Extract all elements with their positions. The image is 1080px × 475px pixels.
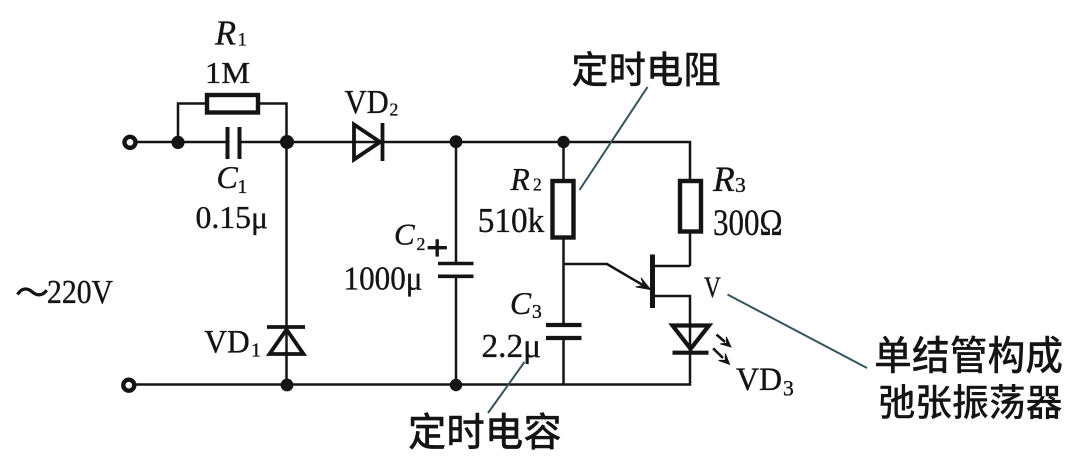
svg-text:R: R xyxy=(510,162,530,197)
svg-text:510k: 510k xyxy=(478,201,545,240)
svg-text:2.2μ: 2.2μ xyxy=(482,328,542,365)
svg-text:C: C xyxy=(510,286,532,321)
svg-text:C: C xyxy=(394,217,415,252)
svg-text:2: 2 xyxy=(533,175,542,195)
svg-text:VD: VD xyxy=(736,362,782,398)
svg-text:1000μ: 1000μ xyxy=(344,261,423,298)
svg-text:3: 3 xyxy=(735,173,746,197)
svg-text:3: 3 xyxy=(783,377,794,401)
svg-text:1: 1 xyxy=(238,177,248,198)
svg-text:R: R xyxy=(214,15,236,53)
svg-text:220V: 220V xyxy=(47,274,113,311)
svg-text:VD: VD xyxy=(345,84,389,121)
svg-text:VD: VD xyxy=(204,324,249,360)
svg-text:1: 1 xyxy=(251,340,261,362)
svg-text:2: 2 xyxy=(417,234,426,254)
svg-text:2: 2 xyxy=(390,100,399,120)
svg-text:1M: 1M xyxy=(205,56,250,90)
svg-text:300Ω: 300Ω xyxy=(713,203,783,244)
svg-text:R: R xyxy=(712,159,735,199)
svg-text:C: C xyxy=(217,159,239,195)
svg-text:3: 3 xyxy=(532,302,542,323)
svg-text:0.15μ: 0.15μ xyxy=(196,200,269,235)
svg-text:1: 1 xyxy=(238,29,248,50)
svg-text:V: V xyxy=(704,271,721,304)
